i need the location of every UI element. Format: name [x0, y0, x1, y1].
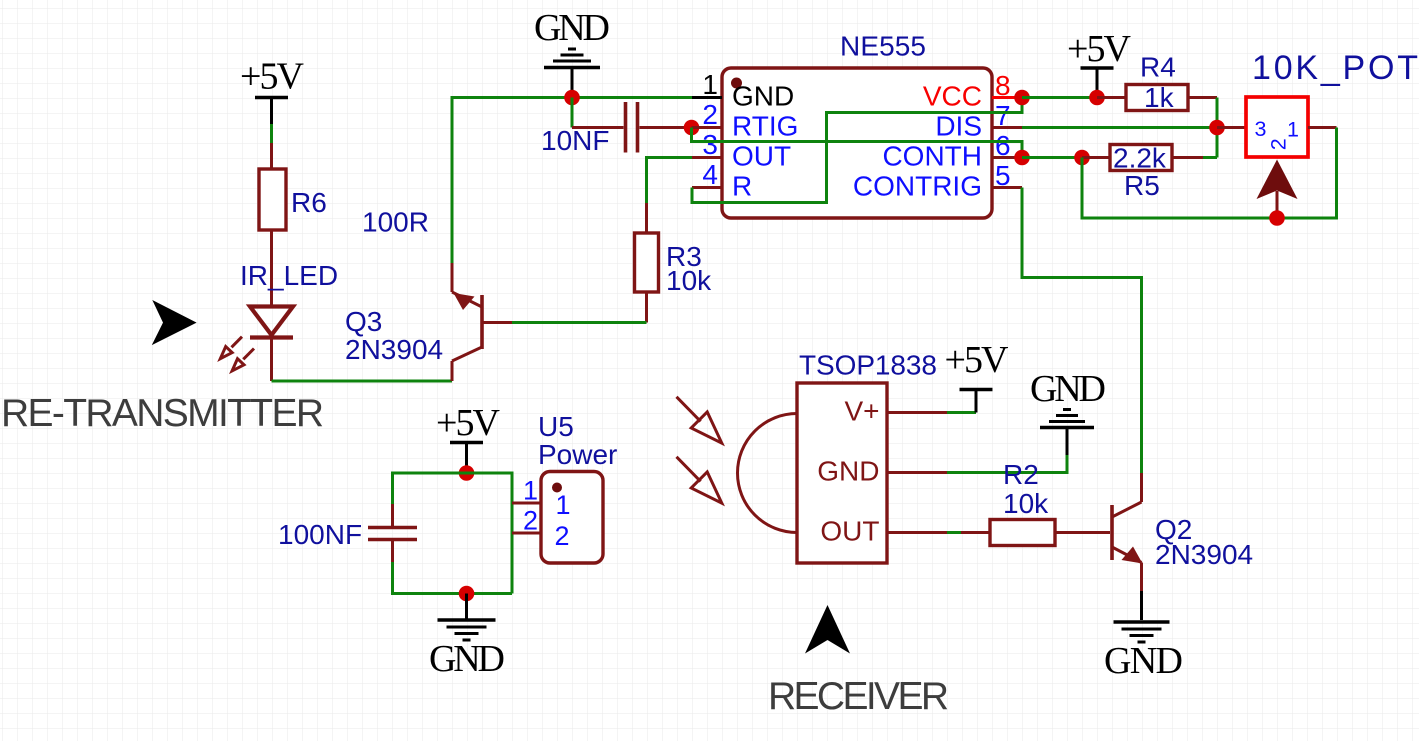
power +5V (TSOP): [945, 339, 1010, 413]
svg-text:RE-TRANSMITTER: RE-TRANSMITTER: [1, 392, 324, 435]
svg-text:2: 2: [1267, 138, 1291, 150]
svg-text:U5: U5: [538, 411, 574, 442]
svg-text:VCC: VCC: [923, 81, 982, 112]
wire RTIG to CONTH: [692, 128, 1023, 158]
svg-text:CONTH: CONTH: [882, 141, 982, 172]
svg-text:+5V: +5V: [240, 56, 305, 98]
svg-text:OUT: OUT: [732, 141, 791, 172]
svg-text:TSOP1838: TSOP1838: [799, 350, 937, 381]
svg-text:Power: Power: [538, 439, 617, 470]
wire Q2 emitter to GND: [1140, 591, 1143, 620]
svg-text:10NF: 10NF: [541, 125, 609, 156]
svg-text:10K_POT: 10K_POT: [1252, 49, 1418, 87]
op-amp-timer IC NE555 body: [722, 68, 992, 218]
svg-text:DIS: DIS: [935, 111, 982, 142]
svg-text:GND: GND: [732, 81, 794, 112]
svg-text:R6: R6: [291, 187, 327, 218]
ground GND (above R2): [1040, 410, 1094, 456]
wire pin5 CONTRIG to Q2 collector: [1022, 188, 1142, 474]
wire pin4 R to VCC rail: [692, 98, 1022, 203]
svg-text:CONTRIG: CONTRIG: [853, 171, 982, 202]
ground GND (top): [544, 49, 600, 95]
wire 100NF to GND rail: [393, 562, 513, 594]
wire OUT to R2: [947, 531, 961, 534]
cursor arrow (receiver): [805, 605, 850, 654]
svg-text:GND: GND: [534, 7, 610, 49]
wire +5V rail (U5): [393, 473, 513, 594]
pin 5 stub: [992, 186, 1022, 189]
pin 1 stub (black GND): [692, 96, 722, 99]
svg-text:1k: 1k: [1144, 82, 1175, 113]
wire R3 to Q3 base: [512, 321, 647, 324]
resistor R6: [259, 143, 286, 230]
resistor R3: [635, 203, 659, 323]
junction (wiper): [1269, 210, 1285, 226]
svg-text:2: 2: [702, 99, 718, 130]
diode IR_LED: [250, 307, 293, 338]
svg-text:Q3: Q3: [345, 306, 382, 337]
wire R6 to IR_LED: [270, 230, 273, 308]
svg-text:1: 1: [702, 69, 718, 100]
ground GND (Q2): [1114, 622, 1170, 642]
wire R4 to R5 (vertical): [1216, 98, 1219, 158]
resistor R4: [1097, 85, 1217, 111]
svg-text:NE555: NE555: [840, 31, 926, 62]
svg-text:R2: R2: [1003, 459, 1039, 490]
junction (pin8 / VCC): [1014, 90, 1030, 106]
transistor Q2: [1112, 473, 1143, 591]
svg-text:GND: GND: [1030, 368, 1106, 410]
emission arrow 1: [220, 337, 242, 359]
svg-text:V+: V+: [844, 396, 879, 427]
svg-text:R5: R5: [1124, 170, 1160, 201]
wire Q3 top to GND bus: [452, 98, 692, 264]
junction (pin2 / 10NF): [684, 120, 700, 136]
junction (GND top): [564, 90, 580, 106]
svg-text:RTIG: RTIG: [732, 111, 798, 142]
svg-text:2N3904: 2N3904: [1155, 539, 1253, 570]
svg-text:IR_LED: IR_LED: [240, 260, 338, 291]
resistor R5: [1082, 145, 1217, 171]
svg-text:10k: 10k: [666, 265, 712, 296]
svg-text:3: 3: [702, 129, 718, 160]
svg-text:4: 4: [702, 159, 718, 190]
power +5V (U5): [436, 402, 501, 470]
power +5V (R4): [1067, 28, 1132, 95]
svg-text:2: 2: [523, 506, 538, 536]
svg-text:1: 1: [523, 476, 538, 506]
wire VCC to +5V: [1022, 96, 1097, 99]
svg-text:OUT: OUT: [820, 516, 879, 547]
svg-text:+5V: +5V: [945, 339, 1010, 381]
IC TSOP1838 body: [738, 383, 888, 563]
svg-text:100NF: 100NF: [278, 519, 362, 550]
pin 4 stub: [692, 186, 722, 189]
pin 2 stub: [692, 126, 723, 129]
svg-text:+5V: +5V: [436, 402, 501, 444]
svg-text:GND: GND: [817, 456, 879, 487]
pin 1 mark dot: [731, 78, 742, 89]
svg-text:1: 1: [556, 490, 571, 520]
power +5V (transmitter): [240, 56, 305, 125]
wire OUT to R3: [647, 158, 693, 204]
wire R5/CONTH to POT wiper: [1082, 128, 1337, 219]
wire DIS to POT: [1022, 126, 1217, 129]
capacitor 10NF: [572, 102, 685, 153]
svg-text:GND: GND: [1104, 640, 1183, 682]
junction (+5V / R4): [1089, 90, 1105, 106]
junction (CONTH): [1014, 150, 1030, 166]
junction (U5 +5V): [459, 465, 475, 481]
svg-text:100R: 100R: [362, 207, 429, 238]
pin GND stub (TSOP): [887, 471, 947, 474]
svg-text:2N3904: 2N3904: [345, 334, 443, 365]
svg-text:R4: R4: [1140, 52, 1176, 83]
potentiometer 10K_POT: [1217, 97, 1337, 218]
svg-text:1: 1: [1287, 118, 1299, 142]
wire IR_LED cathode: [270, 338, 273, 382]
connector U5: [512, 472, 603, 564]
svg-text:GND: GND: [429, 638, 505, 680]
junction (R5 left): [1074, 150, 1090, 166]
wire +5V to R6: [270, 124, 273, 143]
pin 7 stub: [992, 126, 1022, 129]
wire GND to 10NF: [571, 98, 574, 128]
cursor arrow (transmitter): [152, 300, 197, 345]
pin 6 stub: [992, 156, 1022, 159]
photo arrow 1 (TSOP): [677, 397, 722, 443]
svg-text:3: 3: [1255, 117, 1267, 141]
pin OUT stub (TSOP): [887, 531, 947, 534]
pin V+ stub: [887, 411, 947, 414]
wire CONTH to R5: [1022, 156, 1082, 159]
capacitor 100NF: [368, 504, 417, 562]
pin 3 stub: [692, 156, 722, 159]
svg-text:2: 2: [555, 521, 570, 551]
junction (U5 GND): [459, 586, 475, 602]
svg-text:2.2k: 2.2k: [1113, 143, 1167, 174]
wire V+ to +5V: [947, 411, 976, 414]
resistor R2: [961, 520, 1110, 546]
ground GND (U5): [438, 594, 496, 641]
svg-text:10k: 10k: [1003, 488, 1049, 519]
wire IR_LED to Q3: [272, 380, 453, 383]
transistor Q3: [452, 263, 512, 381]
svg-text:R: R: [732, 171, 752, 202]
photo arrow 2 (TSOP): [677, 457, 722, 503]
junction (DIS / POT): [1209, 120, 1225, 136]
emission arrow 2: [232, 349, 254, 371]
pin 8 stub (red VCC): [992, 96, 1022, 99]
wire TSOP GND to ground: [947, 454, 1067, 473]
svg-text:RECEIVER: RECEIVER: [768, 675, 949, 718]
svg-text:+5V: +5V: [1067, 28, 1132, 70]
